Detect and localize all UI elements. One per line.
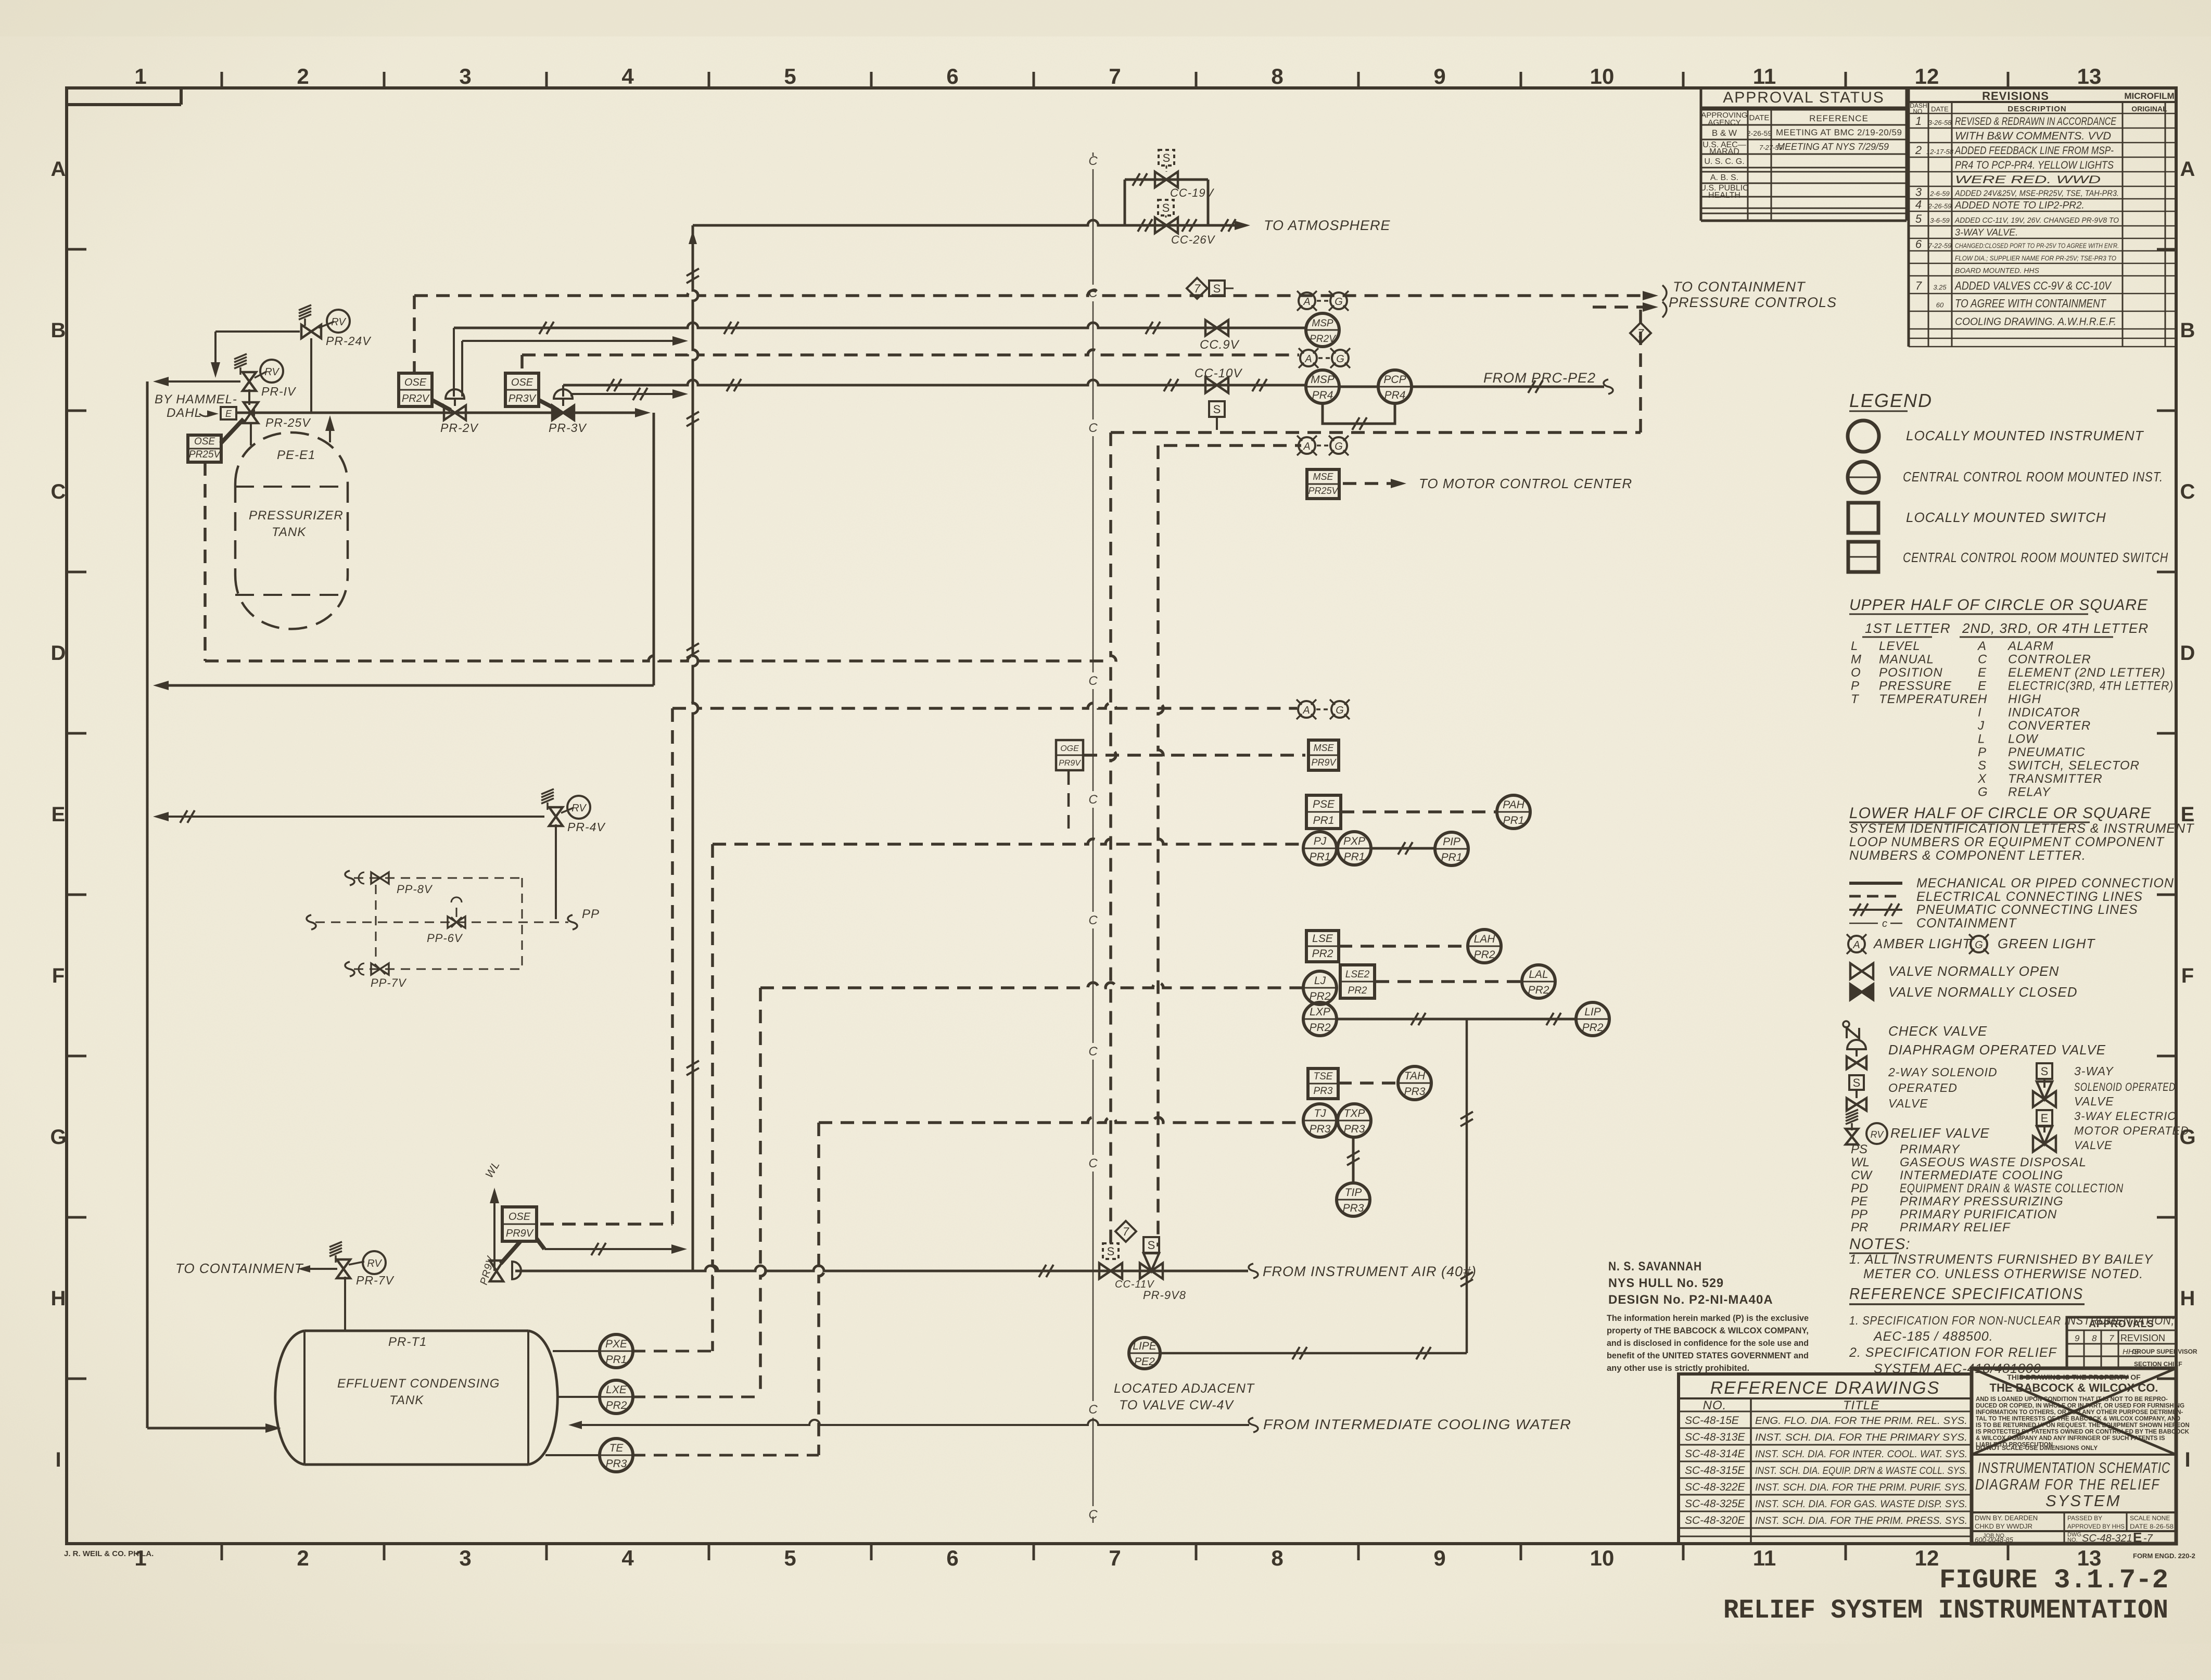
svg-text:LEVEL: LEVEL <box>1879 639 1921 653</box>
svg-text:INDICATOR: INDICATOR <box>2008 706 2080 720</box>
svg-text:PRESSURE CONTROLS: PRESSURE CONTROLS <box>1669 295 1837 310</box>
svg-text:LEGEND: LEGEND <box>1849 390 1933 411</box>
svg-text:9: 9 <box>1433 1546 1445 1570</box>
svg-text:OSE: OSE <box>511 377 533 388</box>
svg-text:PR9V: PR9V <box>1059 759 1081 768</box>
svg-text:c: c <box>1882 918 1887 930</box>
svg-text:OGE: OGE <box>1060 744 1079 753</box>
svg-text:ADDED 24V&25V, MSE-PR25V, TSE,: ADDED 24V&25V, MSE-PR25V, TSE, TAH-PR3. <box>1954 189 2119 198</box>
svg-text:B & W: B & W <box>1712 128 1737 138</box>
svg-text:PR3: PR3 <box>1343 1202 1364 1214</box>
svg-text:PP-6V: PP-6V <box>427 932 463 945</box>
svg-text:2ND, 3RD, OR 4TH LETTER: 2ND, 3RD, OR 4TH LETTER <box>1962 620 2149 636</box>
svg-text:CENTRAL CONTROL ROOM MOUNTED: CENTRAL CONTROL ROOM MOUNTED INST. <box>1903 469 2163 485</box>
svg-text:H: H <box>1978 692 1987 706</box>
svg-text:VALVE NORMALLY CLOSED: VALVE NORMALLY CLOSED <box>1888 984 2078 1000</box>
svg-text:3-WAY: 3-WAY <box>2074 1064 2114 1078</box>
svg-text:APPROVED BY HHS: APPROVED BY HHS <box>2067 1523 2125 1530</box>
svg-text:MSE: MSE <box>1313 743 1334 753</box>
svg-text:SYSTEM: SYSTEM <box>2045 1492 2121 1510</box>
svg-text:C: C <box>1088 154 1098 168</box>
svg-text:G: G <box>1335 296 1343 308</box>
svg-text:PR3: PR3 <box>1310 1123 1331 1135</box>
svg-text:PR2: PR2 <box>606 1399 627 1411</box>
svg-text:7-22-59: 7-22-59 <box>1928 242 1952 250</box>
svg-text:C: C <box>1088 421 1098 435</box>
svg-text:B: B <box>51 319 66 342</box>
svg-text:any other use is strictly proh: any other use is strictly prohibited. <box>1607 1364 1749 1373</box>
svg-text:ADDED FEEDBACK LINE FROM MSP-: ADDED FEEDBACK LINE FROM MSP- <box>1954 145 2114 157</box>
svg-text:WITH B&W COMMENTS. VV: WITH B&W COMMENTS. VVD <box>1955 130 2111 142</box>
svg-text:SC-48-315E: SC-48-315E <box>1685 1465 1746 1477</box>
svg-text:1ST LETTER: 1ST LETTER <box>1865 620 1951 636</box>
svg-text:G: G <box>1335 441 1343 452</box>
svg-text:LOCATED ADJACENT: LOCATED ADJACENT <box>1114 1381 1255 1396</box>
svg-text:6: 6 <box>946 1546 958 1570</box>
svg-text:SWITCH, SELECTOR: SWITCH, SELECTOR <box>2008 759 2140 773</box>
svg-text:SC-48-321: SC-48-321 <box>2082 1533 2132 1544</box>
svg-text:CENTRAL CONTROL ROOM MOUNTED S: CENTRAL CONTROL ROOM MOUNTED SWITCH <box>1903 550 2168 565</box>
svg-text:3-WAY VALVE.: 3-WAY VALVE. <box>1955 227 2018 238</box>
svg-text:PP: PP <box>1851 1207 1867 1221</box>
svg-text:PJ: PJ <box>1314 835 1327 847</box>
svg-text:S: S <box>1148 1239 1155 1252</box>
svg-text:INST. SCH. DIA. FOR THE PRIM.: INST. SCH. DIA. FOR THE PRIM. PRESS. SYS… <box>1755 1516 1967 1526</box>
svg-text:VALVE: VALVE <box>2074 1139 2113 1152</box>
svg-text:CC-10V: CC-10V <box>1195 366 1242 380</box>
svg-text:TO VALVE CW-4V: TO VALVE CW-4V <box>1119 1398 1234 1412</box>
svg-text:G: G <box>1336 353 1344 365</box>
svg-text:PP-7V: PP-7V <box>371 976 407 989</box>
svg-text:TANK: TANK <box>272 525 306 539</box>
svg-text:2-26-59: 2-26-59 <box>1928 202 1952 210</box>
svg-text:ENG. FLO. DIA. FOR THE PRIM. R: ENG. FLO. DIA. FOR THE PRIM. REL. SYS. <box>1755 1416 1967 1427</box>
svg-text:POSITION: POSITION <box>1879 666 1943 680</box>
svg-text:MSP: MSP <box>1312 318 1333 329</box>
svg-text:GASEOUS WASTE DISPOSAL: GASEOUS WASTE DISPOSAL <box>1900 1155 2087 1169</box>
svg-text:5: 5 <box>784 64 796 88</box>
svg-text:REFERENCE SPECIFICATIONS: REFERENCE SPECIFICATIONS <box>1849 1284 2083 1303</box>
svg-text:PR3V: PR3V <box>509 393 537 404</box>
svg-text:S: S <box>1107 1245 1115 1258</box>
svg-text:11: 11 <box>1753 64 1776 88</box>
svg-text:8: 8 <box>1271 64 1283 88</box>
svg-text:G: G <box>1978 785 1988 799</box>
svg-text:TRANSMITTER: TRANSMITTER <box>2008 772 2103 786</box>
svg-text:TO ATMOSPHERE: TO ATMOSPHERE <box>1264 218 1391 233</box>
svg-text:IS TO BE RETURNED UPON REQUEST: IS TO BE RETURNED UPON REQUEST. THE EQUI… <box>1976 1422 2190 1429</box>
svg-text:MICROFILM: MICROFILM <box>2124 91 2174 101</box>
svg-text:PR1: PR1 <box>1344 851 1365 863</box>
svg-text:REVISED & REDRAWN IN ACCORDANC: REVISED & REDRAWN IN ACCORDANCE <box>1955 116 2117 128</box>
svg-text:CC-19V: CC-19V <box>1170 186 1215 199</box>
svg-text:CONTAINMENT: CONTAINMENT <box>1916 916 2017 931</box>
svg-text:PR4: PR4 <box>1384 389 1406 401</box>
svg-text:3-26-58: 3-26-58 <box>1928 119 1952 126</box>
svg-text:PE2: PE2 <box>1134 1356 1155 1368</box>
svg-text:CC.9V: CC.9V <box>1200 338 1240 352</box>
svg-text:PP-8V: PP-8V <box>397 883 433 896</box>
svg-text:PR-24V: PR-24V <box>326 334 372 348</box>
svg-text:E: E <box>2133 1530 2142 1545</box>
svg-text:SC-48-314E: SC-48-314E <box>1685 1448 1746 1460</box>
svg-text:12-17-58: 12-17-58 <box>1926 148 1954 156</box>
svg-text:L: L <box>1851 639 1858 653</box>
svg-text:PR1: PR1 <box>1310 851 1331 863</box>
svg-text:F: F <box>2181 964 2194 987</box>
svg-text:ELEMENT (2ND LETTER): ELEMENT (2ND LETTER) <box>2008 666 2166 680</box>
svg-text:SC-48-325E: SC-48-325E <box>1685 1498 1746 1510</box>
svg-text:DIAGRAM FOR THE RELIEF: DIAGRAM FOR THE RELIEF <box>1975 1477 2160 1493</box>
svg-text:APPROVAL STATUS: APPROVAL STATUS <box>1723 89 1885 106</box>
svg-text:RELAY: RELAY <box>2008 785 2051 799</box>
svg-text:LIP: LIP <box>1584 1006 1601 1018</box>
svg-text:PAH: PAH <box>1503 799 1524 811</box>
svg-text:LOWER HALF OF CIRCLE OR SQUARE: LOWER HALF OF CIRCLE OR SQUARE <box>1849 805 2152 822</box>
svg-text:7: 7 <box>1194 282 1201 295</box>
svg-text:H: H <box>2180 1287 2195 1310</box>
svg-text:PR-25V: PR-25V <box>265 416 311 429</box>
svg-text:9: 9 <box>1433 64 1445 88</box>
svg-text:IS PROTECTED BY PATENTS OWNED: IS PROTECTED BY PATENTS OWNED OR CONTROL… <box>1976 1429 2190 1435</box>
svg-text:PR2: PR2 <box>1310 990 1331 1002</box>
svg-text:C: C <box>51 480 66 503</box>
svg-text:LAL: LAL <box>1529 969 1548 981</box>
svg-text:HIGH: HIGH <box>2008 692 2041 706</box>
svg-text:OSE: OSE <box>509 1211 531 1223</box>
svg-text:7: 7 <box>2109 1333 2114 1343</box>
svg-text:A: A <box>1977 639 1986 653</box>
svg-text:H: H <box>51 1287 66 1310</box>
svg-text:and is disclosed in confidence: and is disclosed in confidence for the s… <box>1607 1339 1809 1348</box>
svg-text:SYSTEM IDENTIFICATION LETTERS: SYSTEM IDENTIFICATION LETTERS & INSTRUME… <box>1849 821 2194 836</box>
svg-text:7: 7 <box>1109 1546 1121 1570</box>
svg-text:J: J <box>1977 719 1985 733</box>
svg-text:1: 1 <box>134 64 146 88</box>
svg-text:LXP: LXP <box>1310 1006 1330 1018</box>
svg-text:PASSED BY: PASSED BY <box>2067 1514 2102 1522</box>
svg-text:DO NOT SCALE-USE DIMENSIONS ON: DO NOT SCALE-USE DIMENSIONS ONLY <box>1976 1444 2098 1452</box>
svg-text:REVISIONS: REVISIONS <box>1982 90 2049 103</box>
svg-text:LSE2: LSE2 <box>1345 969 1370 980</box>
svg-text:PSE: PSE <box>1313 798 1335 810</box>
svg-text:SOLENOID OPERATED: SOLENOID OPERATED <box>2074 1080 2176 1093</box>
svg-text:6: 6 <box>946 64 958 88</box>
svg-text:GROUP SUPERVISOR: GROUP SUPERVISOR <box>2132 1348 2197 1355</box>
svg-text:PR2V: PR2V <box>1310 334 1337 345</box>
svg-text:SCALE NONE: SCALE NONE <box>2130 1514 2170 1522</box>
svg-text:8: 8 <box>2092 1333 2097 1343</box>
svg-text:RELIEF SYSTEM INSTRUMENTATION: RELIEF SYSTEM INSTRUMENTATION <box>1723 1595 2168 1626</box>
svg-text:PR25V: PR25V <box>189 449 222 460</box>
svg-text:TJ: TJ <box>1314 1108 1326 1119</box>
svg-text:TITLE: TITLE <box>1843 1398 1879 1412</box>
svg-text:TXP: TXP <box>1344 1108 1365 1119</box>
svg-text:G: G <box>50 1126 66 1149</box>
svg-text:C: C <box>1088 674 1098 688</box>
svg-text:13: 13 <box>2077 64 2102 88</box>
svg-text:P: P <box>1978 745 1986 759</box>
svg-text:A. B. S.: A. B. S. <box>1710 173 1738 182</box>
svg-text:C: C <box>1088 1156 1098 1170</box>
svg-text:PR1: PR1 <box>606 1354 627 1366</box>
svg-text:PRIMARY: PRIMARY <box>1900 1142 1960 1156</box>
svg-text:GREEN LIGHT: GREEN LIGHT <box>1998 936 2095 951</box>
svg-text:WL: WL <box>1851 1155 1870 1169</box>
svg-text:DESIGN No. P2-NI-MA40A: DESIGN No. P2-NI-MA40A <box>1608 1293 1773 1307</box>
svg-text:INST. SCH. DIA. FOR THE PRIMAR: INST. SCH. DIA. FOR THE PRIMARY SYS. <box>1755 1432 1967 1443</box>
svg-text:7: 7 <box>1915 279 1922 292</box>
svg-text:4: 4 <box>621 64 634 88</box>
svg-text:PRIMARY PURIFICATION: PRIMARY PURIFICATION <box>1900 1207 2057 1221</box>
svg-text:A: A <box>1303 296 1310 308</box>
svg-text:DIAPHRAGM OPERATED VALVE: DIAPHRAGM OPERATED VALVE <box>1888 1042 2106 1058</box>
svg-text:5: 5 <box>784 1546 796 1570</box>
svg-text:FLOW DIA.; SUPPLIER NAME FOR P: FLOW DIA.; SUPPLIER NAME FOR PR-25V; TSE… <box>1955 254 2116 262</box>
svg-text:2-26-59: 2-26-59 <box>1747 129 1772 137</box>
svg-text:THE BABCOCK & WILCOX CO.: THE BABCOCK & WILCOX CO. <box>1990 1381 2158 1394</box>
svg-text:C: C <box>1088 1045 1098 1059</box>
svg-text:D: D <box>51 642 66 665</box>
svg-text:C: C <box>1978 653 1987 667</box>
svg-text:S: S <box>1213 282 1221 295</box>
svg-text:6: 6 <box>1915 238 1922 251</box>
svg-text:ADDED CC-11V, 19V, 26V. CHANGE: ADDED CC-11V, 19V, 26V. CHANGED PR-9V8 T… <box>1954 216 2119 225</box>
svg-text:INSTRUMENTATION SCHEMATIC: INSTRUMENTATION SCHEMATIC <box>1978 1460 2170 1477</box>
svg-text:PR3: PR3 <box>1314 1086 1333 1097</box>
svg-text:MANUAL: MANUAL <box>1879 653 1934 667</box>
svg-text:INST. SCH. DIA. EQUIP. DR'N &: INST. SCH. DIA. EQUIP. DR'N & WASTE COLL… <box>1755 1466 1967 1477</box>
svg-text:2: 2 <box>1915 144 1922 157</box>
svg-text:PR1: PR1 <box>1313 814 1335 826</box>
svg-text:ORIGINAL: ORIGINAL <box>2131 105 2167 113</box>
svg-text:PR4: PR4 <box>1312 389 1333 401</box>
svg-text:3: 3 <box>459 64 471 88</box>
svg-text:AGENCY: AGENCY <box>1708 118 1740 127</box>
svg-text:PR-4V: PR-4V <box>567 820 606 834</box>
svg-text:DAHL: DAHL <box>167 406 202 420</box>
svg-text:4: 4 <box>621 1546 634 1570</box>
svg-text:PS: PS <box>1851 1142 1867 1156</box>
svg-text:BY HAMMEL-: BY HAMMEL- <box>155 392 237 406</box>
svg-text:TIP: TIP <box>1345 1187 1362 1199</box>
svg-text:PR3: PR3 <box>1404 1086 1426 1098</box>
svg-text:DATE: DATE <box>1749 113 1770 122</box>
svg-text:A: A <box>51 158 66 181</box>
svg-text:PE-E1: PE-E1 <box>277 448 315 462</box>
svg-text:MSP: MSP <box>1311 374 1335 386</box>
svg-text:PR1: PR1 <box>1441 851 1463 863</box>
svg-text:UPPER HALF OF CIRCLE OR SQUARE: UPPER HALF OF CIRCLE OR SQUARE <box>1849 596 2148 614</box>
svg-text:2-6-59: 2-6-59 <box>1929 190 1950 198</box>
svg-text:T: T <box>1851 692 1860 706</box>
svg-text:HHS: HHS <box>2123 1347 2139 1356</box>
svg-text:ADDED VALVES CC-9V & CC-10V: ADDED VALVES CC-9V & CC-10V <box>1954 279 2112 292</box>
svg-text:P: P <box>1851 679 1859 693</box>
svg-text:CONTROLER: CONTROLER <box>2008 653 2091 667</box>
svg-text:CHECK VALVE: CHECK VALVE <box>1888 1023 1987 1039</box>
svg-text:ELECTRIC(3RD, 4TH LETTER): ELECTRIC(3RD, 4TH LETTER) <box>2008 679 2174 693</box>
svg-text:NO.: NO. <box>2067 1537 2078 1543</box>
svg-text:10: 10 <box>1590 1546 1615 1570</box>
svg-text:C: C <box>1088 1403 1098 1417</box>
svg-text:D: D <box>2180 642 2195 665</box>
svg-text:PR-9V8: PR-9V8 <box>1143 1289 1186 1302</box>
svg-text:10: 10 <box>1590 64 1615 88</box>
svg-text:2-WAY SOLENOID: 2-WAY SOLENOID <box>1888 1065 1998 1079</box>
svg-text:PRIMARY RELIEF: PRIMARY RELIEF <box>1900 1220 2011 1234</box>
svg-text:VALVE: VALVE <box>2074 1094 2114 1108</box>
svg-text:E: E <box>225 409 232 419</box>
svg-text:S: S <box>1978 759 1986 773</box>
svg-text:5: 5 <box>1915 212 1922 225</box>
svg-text:E: E <box>2041 1112 2049 1125</box>
svg-text:DESCRIPTION: DESCRIPTION <box>2007 105 2067 113</box>
svg-text:7: 7 <box>1109 64 1121 88</box>
svg-text:PR2: PR2 <box>1310 1022 1331 1034</box>
svg-text:PR25V: PR25V <box>1308 486 1339 496</box>
svg-text:PRESSURIZER: PRESSURIZER <box>249 508 344 523</box>
svg-text:MOTOR OPERATED: MOTOR OPERATED <box>2074 1124 2189 1137</box>
svg-text:9: 9 <box>2075 1333 2080 1343</box>
svg-text:LOW: LOW <box>2008 732 2039 746</box>
svg-text:12: 12 <box>1915 64 1939 88</box>
svg-text:B: B <box>2180 319 2195 342</box>
svg-text:PXE: PXE <box>605 1338 628 1350</box>
svg-text:PR9V: PR9V <box>506 1228 534 1239</box>
svg-text:TE: TE <box>609 1442 624 1454</box>
svg-text:PR9V: PR9V <box>1311 757 1337 768</box>
svg-text:LJ: LJ <box>1314 975 1326 987</box>
svg-text:NO.: NO. <box>1703 1398 1727 1412</box>
svg-text:SC-48-320E: SC-48-320E <box>1685 1514 1746 1526</box>
svg-text:INST. SCH. DIA. FOR THE PRIM.: INST. SCH. DIA. FOR THE PRIM. PURIF. SYS… <box>1755 1482 1967 1493</box>
svg-text:COOLING DRAWING. A.W.H.R: COOLING DRAWING. A.W.H.R.E.F. <box>1955 316 2116 328</box>
svg-text:NUMBERS & COMPONENT LETTER.: NUMBERS & COMPONENT LETTER. <box>1849 848 2086 863</box>
svg-text:X: X <box>1977 772 1987 786</box>
svg-text:O: O <box>1851 666 1861 680</box>
svg-text:MECHANICAL OR PIPED CONNECTION: MECHANICAL OR PIPED CONNECTION <box>1916 876 2174 890</box>
svg-text:E: E <box>52 803 66 826</box>
svg-text:S: S <box>2041 1065 2049 1078</box>
svg-text:The information herein marked: The information herein marked (P) is the… <box>1607 1314 1809 1323</box>
svg-text:TO CONTAINMENT: TO CONTAINMENT <box>175 1261 304 1276</box>
svg-text:property of THE BABCOCK & WILC: property of THE BABCOCK & WILCOX COMPANY… <box>1607 1326 1809 1335</box>
svg-text:REFERENCE: REFERENCE <box>1809 113 1869 123</box>
svg-text:DUCED OR COPIED, IN WHOLE OR I: DUCED OR COPIED, IN WHOLE OR IN PART, OR… <box>1976 1403 2184 1409</box>
svg-text:REVISION: REVISION <box>2120 1333 2165 1343</box>
svg-text:3: 3 <box>459 1546 471 1570</box>
svg-text:ALARM: ALARM <box>2007 639 2054 653</box>
svg-text:HEALTH: HEALTH <box>1708 191 1740 200</box>
svg-text:CW: CW <box>1851 1168 1873 1182</box>
svg-text:SC-48-313E: SC-48-313E <box>1685 1431 1746 1443</box>
svg-text:MSE: MSE <box>1313 472 1333 482</box>
svg-text:I: I <box>1978 706 1981 720</box>
svg-text:PD: PD <box>1851 1181 1868 1195</box>
svg-text:PR-IV: PR-IV <box>261 385 297 398</box>
svg-text:ADDED NOTE TO LIP2-PR2.: ADDED NOTE TO LIP2-PR2. <box>1954 200 2085 211</box>
svg-text:G: G <box>1975 939 1983 951</box>
svg-text:PR4 TO PCP-PR4. YELLOW LIGHTS: PR4 TO PCP-PR4. YELLOW LIGHTS <box>1955 159 2114 171</box>
svg-text:TEMPERATURE: TEMPERATURE <box>1879 692 1978 706</box>
svg-text:PR2: PR2 <box>1582 1022 1604 1034</box>
svg-text:LOCALLY MOUNTED INSTRUMENT: LOCALLY MOUNTED INSTRUMENT <box>1906 428 2144 443</box>
svg-text:PR2: PR2 <box>1348 985 1367 996</box>
svg-text:SC-48-15E: SC-48-15E <box>1685 1415 1739 1427</box>
svg-text:PR: PR <box>1851 1220 1868 1234</box>
svg-text:-7: -7 <box>2143 1533 2153 1544</box>
svg-text:PR3: PR3 <box>1344 1123 1365 1135</box>
svg-text:OSE: OSE <box>404 377 427 388</box>
svg-text:TAL TO THE INTERESTS OF THE BA: TAL TO THE INTERESTS OF THE BABCOCK & WI… <box>1976 1416 2180 1422</box>
svg-text:LSE: LSE <box>1312 933 1333 945</box>
svg-text:PR2: PR2 <box>1474 949 1495 961</box>
svg-text:PR1: PR1 <box>1503 814 1524 826</box>
svg-text:A: A <box>2180 158 2195 181</box>
svg-text:AEC-185 / 488500.: AEC-185 / 488500. <box>1873 1329 1993 1344</box>
svg-text:FROM PRC-PE2: FROM PRC-PE2 <box>1483 370 1596 386</box>
svg-text:TO AGREE WITH CONTAINMENT: TO AGREE WITH CONTAINMENT <box>1955 297 2106 310</box>
svg-text:MARAD: MARAD <box>1709 147 1739 156</box>
svg-text:C: C <box>1088 913 1098 927</box>
svg-text:CC-26V: CC-26V <box>1171 233 1216 246</box>
svg-text:APPROVALS: APPROVALS <box>2089 1319 2154 1330</box>
svg-text:N. S. SAVANNAH: N. S. SAVANNAH <box>1608 1259 1702 1274</box>
svg-text:AND IS LOANED UPON CONDITION T: AND IS LOANED UPON CONDITION THAT IT IS … <box>1976 1396 2168 1403</box>
svg-text:PXP: PXP <box>1343 835 1365 847</box>
svg-text:SC-48-322E: SC-48-322E <box>1685 1481 1746 1493</box>
svg-text:A: A <box>1302 705 1310 716</box>
svg-text:PR-3V: PR-3V <box>549 421 587 435</box>
svg-text:TSE: TSE <box>1314 1071 1333 1082</box>
svg-text:& WILCOX COMPANY AND ANY INFRI: & WILCOX COMPANY AND ANY INFRINGER OF SU… <box>1976 1435 2165 1442</box>
svg-text:LOOP NUMBERS OR EQUIPMENT COMP: LOOP NUMBERS OR EQUIPMENT COMPONENT <box>1849 835 2165 849</box>
svg-text:3: 3 <box>1915 186 1922 199</box>
svg-text:PE: PE <box>1851 1194 1868 1208</box>
svg-text:2: 2 <box>297 64 309 88</box>
svg-text:8: 8 <box>1271 1546 1283 1570</box>
svg-text:LAH: LAH <box>1474 933 1496 945</box>
svg-text:7: 7 <box>1123 1225 1129 1238</box>
svg-text:PP: PP <box>582 907 600 921</box>
svg-text:EFFLUENT CONDENSING: EFFLUENT CONDENSING <box>337 1377 500 1391</box>
svg-text:A: A <box>1304 353 1312 365</box>
svg-text:RV: RV <box>331 316 346 328</box>
svg-text:3-WAY ELECTRIC: 3-WAY ELECTRIC <box>2074 1110 2176 1123</box>
svg-text:INFORMATION TO OTHERS, OR FOR: INFORMATION TO OTHERS, OR FOR ANY OTHER … <box>1976 1409 2183 1416</box>
svg-text:TAH: TAH <box>1404 1070 1426 1082</box>
svg-text:F: F <box>52 964 65 987</box>
svg-text:PR-2V: PR-2V <box>440 421 479 435</box>
svg-text:C: C <box>1088 793 1098 807</box>
svg-text:MEETING AT BMC 2/19-20/59: MEETING AT BMC 2/19-20/59 <box>1776 128 1902 137</box>
svg-text:LXE: LXE <box>606 1384 627 1396</box>
svg-text:3-6-59: 3-6-59 <box>1930 217 1950 224</box>
svg-text:1: 1 <box>1915 114 1922 128</box>
svg-text:CHKD BY WWDJR: CHKD BY WWDJR <box>1975 1522 2032 1530</box>
svg-text:A: A <box>1303 441 1310 452</box>
svg-text:INTERMEDIATE COOLING: INTERMEDIATE COOLING <box>1900 1168 2063 1182</box>
svg-text:LIPE: LIPE <box>1133 1340 1157 1352</box>
svg-text:ELECTRICAL CONNECTING LINES: ELECTRICAL CONNECTING LINES <box>1916 889 2143 904</box>
svg-text:600-0048-85: 600-0048-85 <box>1975 1536 2013 1544</box>
svg-text:CONVERTER: CONVERTER <box>2008 719 2091 733</box>
svg-text:E: E <box>1978 679 1987 693</box>
svg-text:DATE 8-26-58: DATE 8-26-58 <box>2130 1523 2174 1530</box>
svg-text:S: S <box>1162 201 1170 214</box>
svg-text:DWN BY. DEARDEN: DWN BY. DEARDEN <box>1975 1514 2038 1522</box>
